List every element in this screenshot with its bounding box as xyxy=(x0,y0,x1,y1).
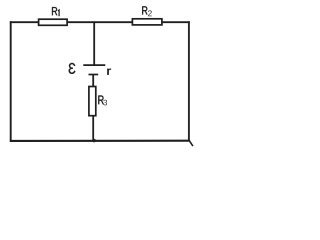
label R1 xyxy=(52,7,57,15)
label r (internal resistance) xyxy=(107,69,111,75)
wire: top segment between R1 and R2 xyxy=(67,21,133,23)
wire: left vertical side xyxy=(10,21,12,141)
label R3 subscript 3 xyxy=(103,100,107,106)
battery cell: short plate xyxy=(89,74,99,76)
junction dot on bottom wire xyxy=(92,139,95,142)
label R2 subscript 2 xyxy=(148,10,152,16)
label R3 xyxy=(98,96,103,105)
wire: from battery down to R3 xyxy=(92,75,94,88)
label R1 subscript 1 xyxy=(58,10,59,16)
wire: top-left segment to R1 xyxy=(10,21,40,23)
resistor R1 xyxy=(39,19,68,25)
wire: bottom-right overshoot stroke xyxy=(189,140,193,146)
resistor R2 xyxy=(132,19,162,25)
resistor R3 xyxy=(89,87,96,116)
label R2 xyxy=(142,6,147,14)
wire: top-right segment from R2 to corner xyxy=(162,21,190,23)
label E (emf) xyxy=(69,63,76,74)
battery cell: long plate xyxy=(83,64,105,66)
wire: middle branch from top junction down to battery xyxy=(93,21,95,65)
wire: from R3 down to bottom junction xyxy=(92,116,94,141)
wire: bottom side xyxy=(10,140,189,142)
wire: right vertical side xyxy=(188,21,190,140)
